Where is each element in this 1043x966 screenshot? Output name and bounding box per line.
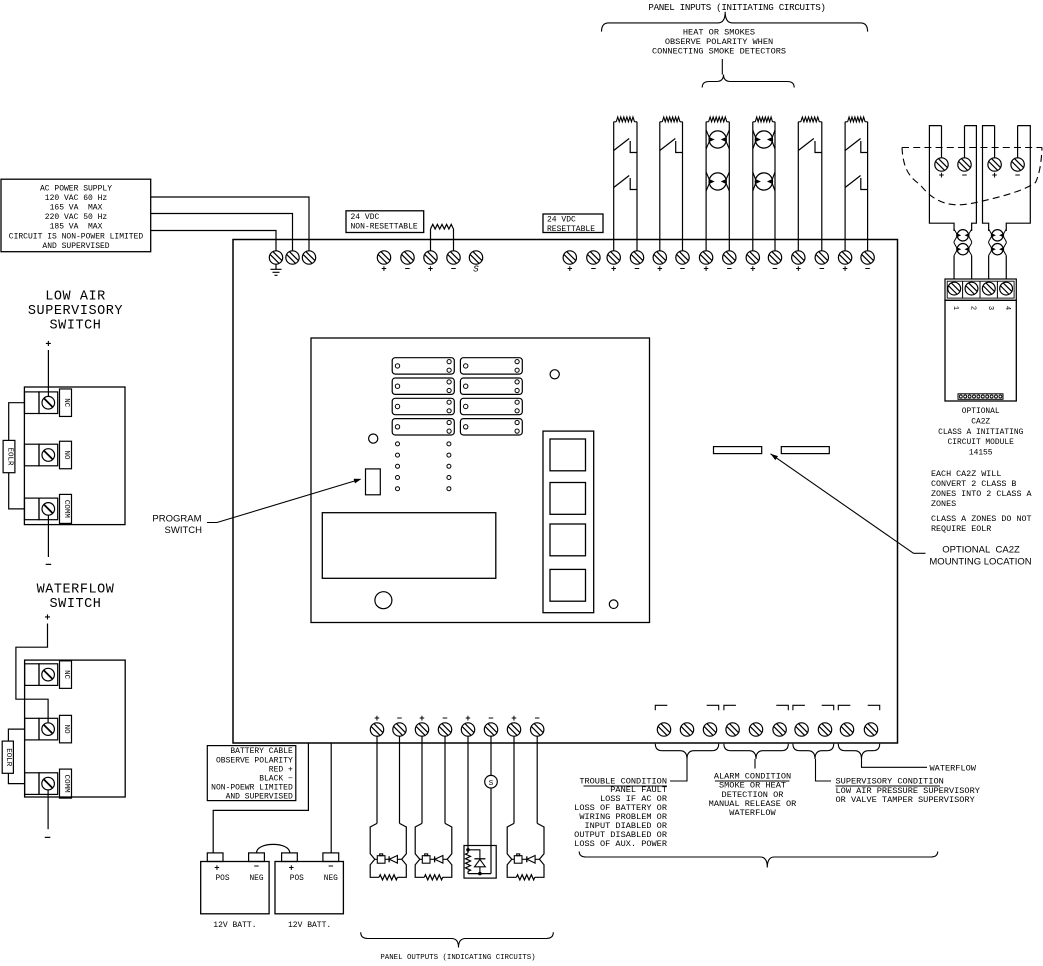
svg-text:OR VALVE TAMPER SUPERVISORY: OR VALVE TAMPER SUPERVISORY [836, 795, 975, 805]
svg-text:EOLR: EOLR [4, 748, 12, 767]
svg-text:+: + [703, 265, 708, 275]
svg-text:BLACK −: BLACK − [259, 775, 293, 784]
svg-text:−: − [451, 265, 456, 275]
svg-text:+: + [214, 864, 219, 874]
svg-text:−: − [442, 714, 447, 724]
svg-text:−: − [680, 265, 685, 275]
svg-text:+: + [842, 265, 847, 275]
svg-text:+: + [419, 714, 424, 724]
svg-text:−: − [591, 265, 596, 275]
svg-text:COMM: COMM [62, 775, 70, 794]
svg-text:OPTIONAL: OPTIONAL [962, 407, 1000, 416]
svg-text:+: + [428, 265, 433, 275]
svg-text:+: + [939, 171, 944, 181]
svg-text:165 VA MAX: 165 VA MAX [50, 204, 103, 213]
svg-text:AND SUPERVISED: AND SUPERVISED [42, 242, 109, 251]
svg-text:+: + [465, 714, 470, 724]
svg-text:SWITCH: SWITCH [50, 319, 102, 334]
svg-text:−: − [819, 265, 824, 275]
svg-text:−: − [534, 714, 539, 724]
svg-text:185 VA MAX: 185 VA MAX [50, 223, 103, 232]
svg-text:−: − [488, 714, 493, 724]
svg-text:SUPERVISORY: SUPERVISORY [28, 304, 123, 319]
svg-text:220 VAC 50 Hz: 220 VAC 50 Hz [45, 213, 108, 222]
svg-text:24 VDC: 24 VDC [547, 216, 576, 225]
svg-text:ZONES: ZONES [931, 499, 956, 509]
svg-text:−: − [962, 171, 967, 181]
svg-text:COMM: COMM [62, 500, 70, 519]
svg-text:+: + [45, 340, 51, 351]
svg-text:+: + [796, 265, 801, 275]
svg-text:−: − [405, 265, 410, 275]
svg-text:HEAT OR SMOKES: HEAT OR SMOKES [683, 28, 755, 38]
svg-text:NON-POEWR LIMITED: NON-POEWR LIMITED [211, 784, 293, 793]
svg-text:CLASS A ZONES DO NOT: CLASS A ZONES DO NOT [931, 514, 1032, 524]
svg-text:+: + [992, 171, 997, 181]
svg-text:24 VDC: 24 VDC [351, 213, 380, 222]
svg-text:AC POWER SUPPLY: AC POWER SUPPLY [40, 185, 112, 194]
svg-text:ZONES INTO 2 CLASS A: ZONES INTO 2 CLASS A [931, 489, 1032, 499]
svg-text:2: 2 [969, 306, 977, 310]
svg-text:RESETTABLE: RESETTABLE [547, 225, 595, 234]
svg-text:PROGRAM: PROGRAM [152, 514, 201, 525]
svg-text:4: 4 [1003, 306, 1011, 310]
svg-text:CIRCUIT MODULE: CIRCUIT MODULE [948, 438, 1015, 447]
svg-text:14155: 14155 [969, 449, 993, 458]
svg-text:+: + [567, 265, 572, 275]
svg-text:REQUIRE EOLR: REQUIRE EOLR [931, 524, 991, 534]
svg-text:−: − [254, 862, 259, 872]
svg-text:−: − [44, 833, 51, 845]
svg-text:BATTERY CABLE: BATTERY CABLE [230, 747, 293, 756]
svg-text:MOUNTING LOCATION: MOUNTING LOCATION [929, 557, 1031, 568]
svg-text:CONVERT 2 CLASS B: CONVERT 2 CLASS B [931, 479, 1016, 489]
svg-text:CIRCUIT IS NON-POWER LIMITED: CIRCUIT IS NON-POWER LIMITED [9, 232, 144, 241]
svg-text:−: − [727, 265, 732, 275]
svg-text:CONNECTING SMOKE DETECTORS: CONNECTING SMOKE DETECTORS [652, 47, 786, 57]
svg-text:PANEL OUTPUTS (INDICATING CIRC: PANEL OUTPUTS (INDICATING CIRCUITS) [380, 954, 535, 962]
svg-text:+: + [289, 864, 294, 874]
svg-text:LOSS OF AUX. POWER: LOSS OF AUX. POWER [574, 839, 667, 849]
svg-text:NO: NO [62, 450, 70, 460]
svg-text:OPTIONAL CA2Z: OPTIONAL CA2Z [942, 545, 1020, 556]
svg-text:12V BATT.: 12V BATT. [288, 921, 331, 930]
svg-text:+: + [511, 714, 516, 724]
svg-text:NO: NO [62, 725, 70, 735]
svg-text:NC: NC [62, 670, 70, 680]
svg-text:LOW AIR: LOW AIR [45, 290, 106, 305]
svg-text:−: − [1015, 171, 1020, 181]
svg-text:S: S [489, 780, 494, 788]
svg-text:3: 3 [986, 306, 994, 310]
svg-text:+: + [657, 265, 662, 275]
svg-text:12V BATT.: 12V BATT. [213, 921, 256, 930]
svg-text:+: + [611, 265, 616, 275]
svg-text:+: + [381, 265, 386, 275]
svg-text:−: − [45, 560, 52, 572]
svg-text:SUPERVISORY CONDITION: SUPERVISORY CONDITION [836, 777, 944, 787]
svg-text:WATERFLOW: WATERFLOW [37, 583, 115, 598]
svg-text:RED +: RED + [269, 765, 293, 774]
svg-text:NC: NC [62, 398, 70, 408]
svg-text:SWITCH: SWITCH [50, 597, 102, 612]
svg-text:−: − [397, 714, 402, 724]
svg-text:NEG: NEG [249, 875, 263, 883]
svg-text:S: S [473, 265, 479, 275]
svg-text:SWITCH: SWITCH [165, 525, 203, 536]
svg-text:−: − [865, 265, 870, 275]
svg-text:1: 1 [951, 306, 959, 310]
svg-text:−: − [328, 862, 333, 872]
svg-text:NON-RESETTABLE: NON-RESETTABLE [351, 223, 418, 232]
svg-text:OBSERVE POLARITY WHEN: OBSERVE POLARITY WHEN [665, 37, 773, 47]
svg-text:AND SUPERVISED: AND SUPERVISED [226, 793, 293, 802]
svg-text:+: + [374, 714, 379, 724]
svg-text:+: + [44, 614, 50, 625]
svg-text:EACH CA2Z WILL: EACH CA2Z WILL [931, 469, 1001, 479]
svg-text:WATERFLOW: WATERFLOW [930, 763, 977, 773]
svg-text:CLASS A INITIATING: CLASS A INITIATING [938, 428, 1023, 437]
svg-text:EOLR: EOLR [5, 447, 13, 466]
svg-text:CA2Z: CA2Z [971, 417, 990, 426]
svg-text:POS: POS [215, 875, 229, 883]
svg-text:+: + [750, 265, 755, 275]
svg-text:−: − [634, 265, 639, 275]
svg-text:WATERFLOW: WATERFLOW [729, 808, 776, 818]
svg-text:120 VAC 60 Hz: 120 VAC 60 Hz [45, 194, 108, 203]
svg-text:PANEL INPUTS (INITIATING CIRCU: PANEL INPUTS (INITIATING CIRCUITS) [648, 2, 825, 13]
svg-text:OBSERVE POLARITY: OBSERVE POLARITY [216, 756, 293, 765]
svg-text:NEG: NEG [324, 875, 338, 883]
svg-text:POS: POS [290, 875, 304, 883]
svg-text:−: − [772, 265, 777, 275]
